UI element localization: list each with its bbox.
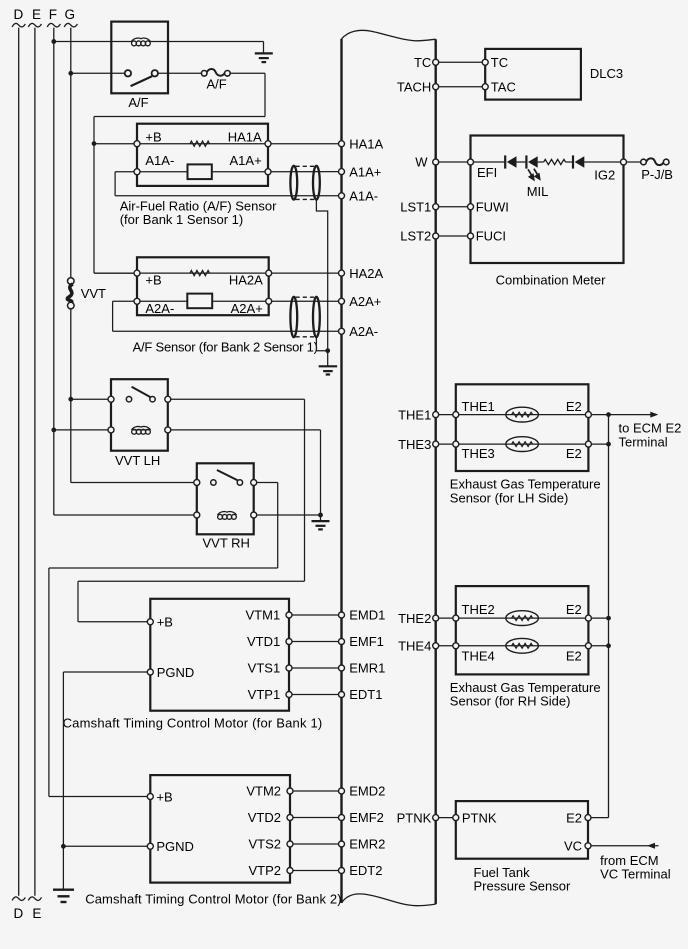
svg-text:Camshaft Timing Control Motor: Camshaft Timing Control Motor (for Bank … [63,715,323,730]
svg-text:HA1A: HA1A [228,130,262,145]
svg-text:EMD1: EMD1 [349,608,385,623]
svg-text:EMR2: EMR2 [349,837,385,852]
svg-text:G: G [64,7,75,22]
svg-text:VC Terminal: VC Terminal [600,867,671,882]
svg-text:VTS2: VTS2 [248,837,281,852]
svg-text:THE1: THE1 [462,399,495,414]
svg-text:E2: E2 [566,446,582,461]
svg-text:VTM1: VTM1 [246,608,281,623]
svg-text:EDT2: EDT2 [349,863,382,878]
svg-text:EFI: EFI [477,165,497,180]
svg-text:D: D [14,7,24,22]
svg-text:VVT RH: VVT RH [203,536,250,551]
svg-text:THE2: THE2 [462,602,495,617]
svg-text:FUWI: FUWI [476,199,509,214]
svg-text:A2A-: A2A- [349,324,378,339]
svg-text:THE3: THE3 [398,437,431,452]
svg-text:Camshaft Timing Control Motor: Camshaft Timing Control Motor (for Bank … [85,891,341,906]
svg-text:TAC: TAC [491,79,516,94]
svg-text:VC: VC [564,839,582,854]
svg-text:E2: E2 [566,399,582,414]
svg-text:+B: +B [145,130,161,145]
svg-text:A/F Sensor (for Bank 2 Sensor: A/F Sensor (for Bank 2 Sensor 1) [133,339,318,354]
svg-text:A/F: A/F [128,95,148,110]
svg-text:VVT: VVT [81,286,106,301]
svg-text:E2: E2 [566,602,582,617]
svg-text:VTP2: VTP2 [248,863,281,878]
svg-text:A1A+: A1A+ [349,164,381,179]
svg-text:A1A-: A1A- [145,153,174,168]
svg-text:A1A-: A1A- [349,189,378,204]
svg-text:Sensor (for RH Side): Sensor (for RH Side) [450,694,571,709]
svg-text:+B: +B [145,272,161,287]
svg-text:FUCI: FUCI [476,229,506,244]
svg-text:THE4: THE4 [398,639,431,654]
svg-text:to ECM E2: to ECM E2 [619,420,682,435]
svg-text:A1A+: A1A+ [230,153,262,168]
svg-text:IG2: IG2 [594,168,615,183]
svg-text:Exhaust Gas Temperature: Exhaust Gas Temperature [450,680,601,695]
svg-text:MIL: MIL [527,184,549,199]
svg-text:EMD2: EMD2 [349,784,385,799]
svg-text:E2: E2 [566,648,582,663]
svg-text:+B: +B [156,789,172,804]
svg-text:HA2A: HA2A [229,272,263,287]
svg-text:TC: TC [414,55,431,70]
svg-text:D: D [14,906,24,921]
svg-text:VTM2: VTM2 [246,784,281,799]
svg-text:VTP1: VTP1 [248,687,281,702]
svg-text:HA1A: HA1A [349,136,383,151]
svg-text:TACH: TACH [397,79,431,94]
svg-text:VTS1: VTS1 [248,661,281,676]
svg-text:+B: +B [157,615,173,630]
svg-text:VTD2: VTD2 [248,810,281,825]
svg-text:THE1: THE1 [398,407,431,422]
svg-text:PGND: PGND [156,839,194,854]
svg-text:THE3: THE3 [462,446,495,461]
svg-text:A2A-: A2A- [145,301,174,316]
svg-text:TC: TC [491,55,508,70]
svg-text:HA2A: HA2A [349,266,383,281]
svg-text:A/F: A/F [206,77,226,92]
svg-text:(for Bank 1 Sensor 1): (for Bank 1 Sensor 1) [120,212,244,227]
svg-text:F: F [49,7,57,22]
svg-text:VVT LH: VVT LH [115,453,160,468]
svg-text:EMR1: EMR1 [349,661,385,676]
svg-text:E: E [32,7,41,22]
svg-text:from ECM: from ECM [600,853,659,868]
svg-text:EMF2: EMF2 [349,810,384,825]
svg-text:P-J/B: P-J/B [641,167,673,182]
svg-text:Combination Meter: Combination Meter [496,272,606,287]
svg-text:W: W [415,155,428,170]
svg-text:THE2: THE2 [398,611,431,626]
svg-text:E: E [32,906,41,921]
svg-text:LST1: LST1 [400,199,431,214]
svg-text:Sensor (for LH Side): Sensor (for LH Side) [450,490,569,505]
svg-text:A2A+: A2A+ [231,301,263,316]
svg-text:E2: E2 [566,810,582,825]
svg-text:EMF1: EMF1 [349,634,384,649]
svg-text:PTNK: PTNK [397,810,432,825]
svg-text:EDT1: EDT1 [349,687,382,702]
svg-text:THE4: THE4 [462,648,495,663]
svg-text:Pressure Sensor: Pressure Sensor [474,878,571,893]
svg-text:Terminal: Terminal [619,435,668,450]
svg-text:Air-Fuel Ratio (A/F) Sensor: Air-Fuel Ratio (A/F) Sensor [120,198,277,213]
svg-text:LST2: LST2 [400,229,431,244]
svg-text:DLC3: DLC3 [590,66,623,81]
svg-text:PTNK: PTNK [462,810,497,825]
svg-text:A2A+: A2A+ [349,294,381,309]
svg-text:VTD1: VTD1 [247,634,280,649]
svg-text:PGND: PGND [157,665,195,680]
